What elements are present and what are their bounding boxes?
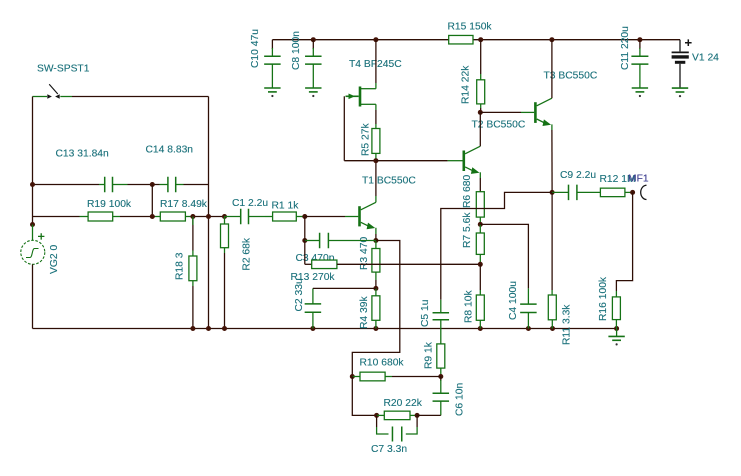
svg-text:V1 24: V1 24 [692,52,719,63]
transistor T4 JFET [359,87,362,107]
wire R13 to R7 node [337,263,480,265]
wire emitter node to R11 [551,192,553,290]
ground output [616,329,618,337]
svg-text:VG2 0: VG2 0 [49,245,60,274]
resistor R1 [265,216,273,218]
resistor R14 [480,40,482,74]
svg-text:R4 39k: R4 39k [359,296,370,329]
svg-text:R5 27k: R5 27k [360,123,371,156]
node T1 emitter [373,238,378,243]
wire C6 to R20 right [417,414,441,416]
svg-text:C8 100n: C8 100n [291,31,302,70]
svg-text:R7 5.6k: R7 5.6k [462,212,473,248]
wire T2 emitter to R6 [479,178,481,192]
capacitor C9 [552,191,568,193]
resistor R20 [377,414,385,416]
svg-text:C10 47u: C10 47u [250,29,261,68]
capacitor C1 [225,216,241,218]
capacitor C8 [312,40,314,49]
wire R10 left down to R20 [352,377,376,416]
wire T3 collector to rail [551,40,553,98]
resistor R9 [437,344,445,368]
svg-text:C6 10n: C6 10n [454,383,465,416]
capacitor C11 [639,40,641,49]
wire emitter node to C5 [441,192,552,299]
node R20 left [374,413,379,418]
node R3 bottom [373,286,378,291]
svg-text:R6 680: R6 680 [462,175,473,208]
ground C11 [632,87,648,89]
wire C13 to C14 [128,184,160,186]
node R14 bottom [478,110,483,115]
svg-text:R8 10k: R8 10k [463,290,474,323]
resistor R17 [155,216,160,218]
wire to battery V1 [679,40,681,52]
node R5 bottom [373,158,378,163]
wire output to R16 [616,192,632,291]
wire switch loop right vertical [208,97,210,329]
node bottom rail junctions [190,326,195,331]
svg-text:R18 3: R18 3 [175,252,186,280]
resistor R13 [312,260,337,269]
capacitor C2 [312,288,314,304]
wire T4 gate down [343,96,345,160]
svg-text:C14 8.83n: C14 8.83n [146,144,194,155]
svg-text:R19 100k: R19 100k [87,199,132,210]
svg-text:C4 100u: C4 100u [508,281,519,320]
node R10 left [350,374,355,379]
ground V1 [672,87,688,89]
resistor R18 [192,217,194,251]
capacitor C3 [305,240,319,242]
capacitor C7 [376,415,378,427]
capacitor C10 [271,40,273,49]
svg-text:R3 470: R3 470 [359,237,370,270]
svg-text:R2 68k: R2 68k [242,237,253,270]
wire C2 to R3R4 node [313,287,376,289]
resistor R10 [352,376,360,378]
svg-text:SW-SPST1: SW-SPST1 [37,64,90,75]
transistor T2 [448,160,463,162]
switch SW-SPST1 [33,96,48,98]
svg-text:R14 22k: R14 22k [461,65,472,104]
wire T1 emitter node to R10 [352,241,400,377]
node input line junctions [150,214,155,219]
resistor R15 [449,35,473,44]
wire T3 emitter down [551,130,553,192]
node C1R1-T1base tap [302,238,307,243]
wire left vertical to VG2 [32,185,34,225]
wire T2 collector [479,112,481,146]
capacitor C14 [160,184,168,186]
battery V1 [672,51,689,53]
svg-text:C1 2.2u: C1 2.2u [232,198,268,209]
svg-text:T1 BC550C: T1 BC550C [362,176,416,187]
resistor R2 [224,217,226,225]
svg-text:R1 1k: R1 1k [272,201,300,212]
capacitor C6 [440,377,442,382]
resistor R12 [600,188,625,197]
svg-text:C9 2.2u: C9 2.2u [560,170,596,181]
wire tap to R13 [304,241,306,265]
wire input line left [33,216,80,218]
node output [630,190,635,195]
wire R14 node to T3 base [480,111,521,113]
wire tap down [304,217,306,241]
svg-text:C7 3.3n: C7 3.3n [371,444,407,455]
node R6 bottom [478,222,483,227]
wire switch loop left vertical [32,97,34,185]
source VG2 [32,225,34,241]
wire R10 to R9 node [392,376,441,378]
svg-text:R17 8.49k: R17 8.49k [160,199,208,210]
svg-text:R11 3.3k: R11 3.3k [561,304,572,345]
node C13-C14 junction [150,182,155,187]
wire top supply rail [272,39,448,41]
resistor R5 [375,104,377,110]
resistor R11 [551,290,553,295]
svg-text:C2 33u: C2 33u [294,278,305,311]
wire VG2 to ground rail [32,264,34,328]
wire C13C14 to R19R17 [151,185,153,217]
resistor R7 [479,224,481,233]
connector MF1 [641,185,647,199]
resistor R4 [375,288,377,295]
transistor T1 [345,216,358,218]
svg-text:MF1: MF1 [628,174,649,185]
node top rail junctions [311,37,316,42]
wire C14 right [184,184,209,186]
ground C8 [305,87,321,89]
svg-text:R9 1k: R9 1k [423,341,434,369]
svg-text:R10 680k: R10 680k [360,357,405,368]
wire bottom ground rail [33,328,617,330]
wire R1 to T1 base [305,216,345,218]
svg-text:C11 220u: C11 220u [620,26,631,70]
node T3 emitter line [550,190,555,195]
node R1 right [302,214,307,219]
svg-text:T2 BC550C: T2 BC550C [472,120,526,131]
capacitor C4 [527,288,529,304]
wire R19 to R17 [120,216,155,218]
capacitor C5 [440,300,442,313]
resistor R19 [80,216,89,218]
node R20 right [415,413,420,418]
svg-text:R15 150k: R15 150k [448,22,493,33]
node left rail dots [30,182,35,187]
wire switch top [72,96,209,98]
resistor R6 [476,192,484,217]
wire T1 collector [375,196,377,202]
transistor T3 [534,102,537,123]
svg-text:C13 31.84n: C13 31.84n [56,148,110,159]
ground C10 [264,87,280,89]
svg-text:C5 1u: C5 1u [420,299,431,327]
wire R6R7 node to C4 [480,224,528,288]
wire R17 to C1 [193,216,225,218]
wire T4 drain to rail [375,83,377,89]
resistor R3 [375,241,377,249]
node R9 bottom [438,374,443,379]
wire C13 C14 line [33,184,100,186]
node R7 bottom [478,262,483,267]
svg-text:R16 100k: R16 100k [598,276,609,321]
resistor R16 [615,291,617,297]
resistor R8 [479,264,481,290]
capacitor C13 [99,184,105,186]
svg-text:R20 22k: R20 22k [384,398,423,409]
wire R5 node to T2 base [376,160,448,162]
